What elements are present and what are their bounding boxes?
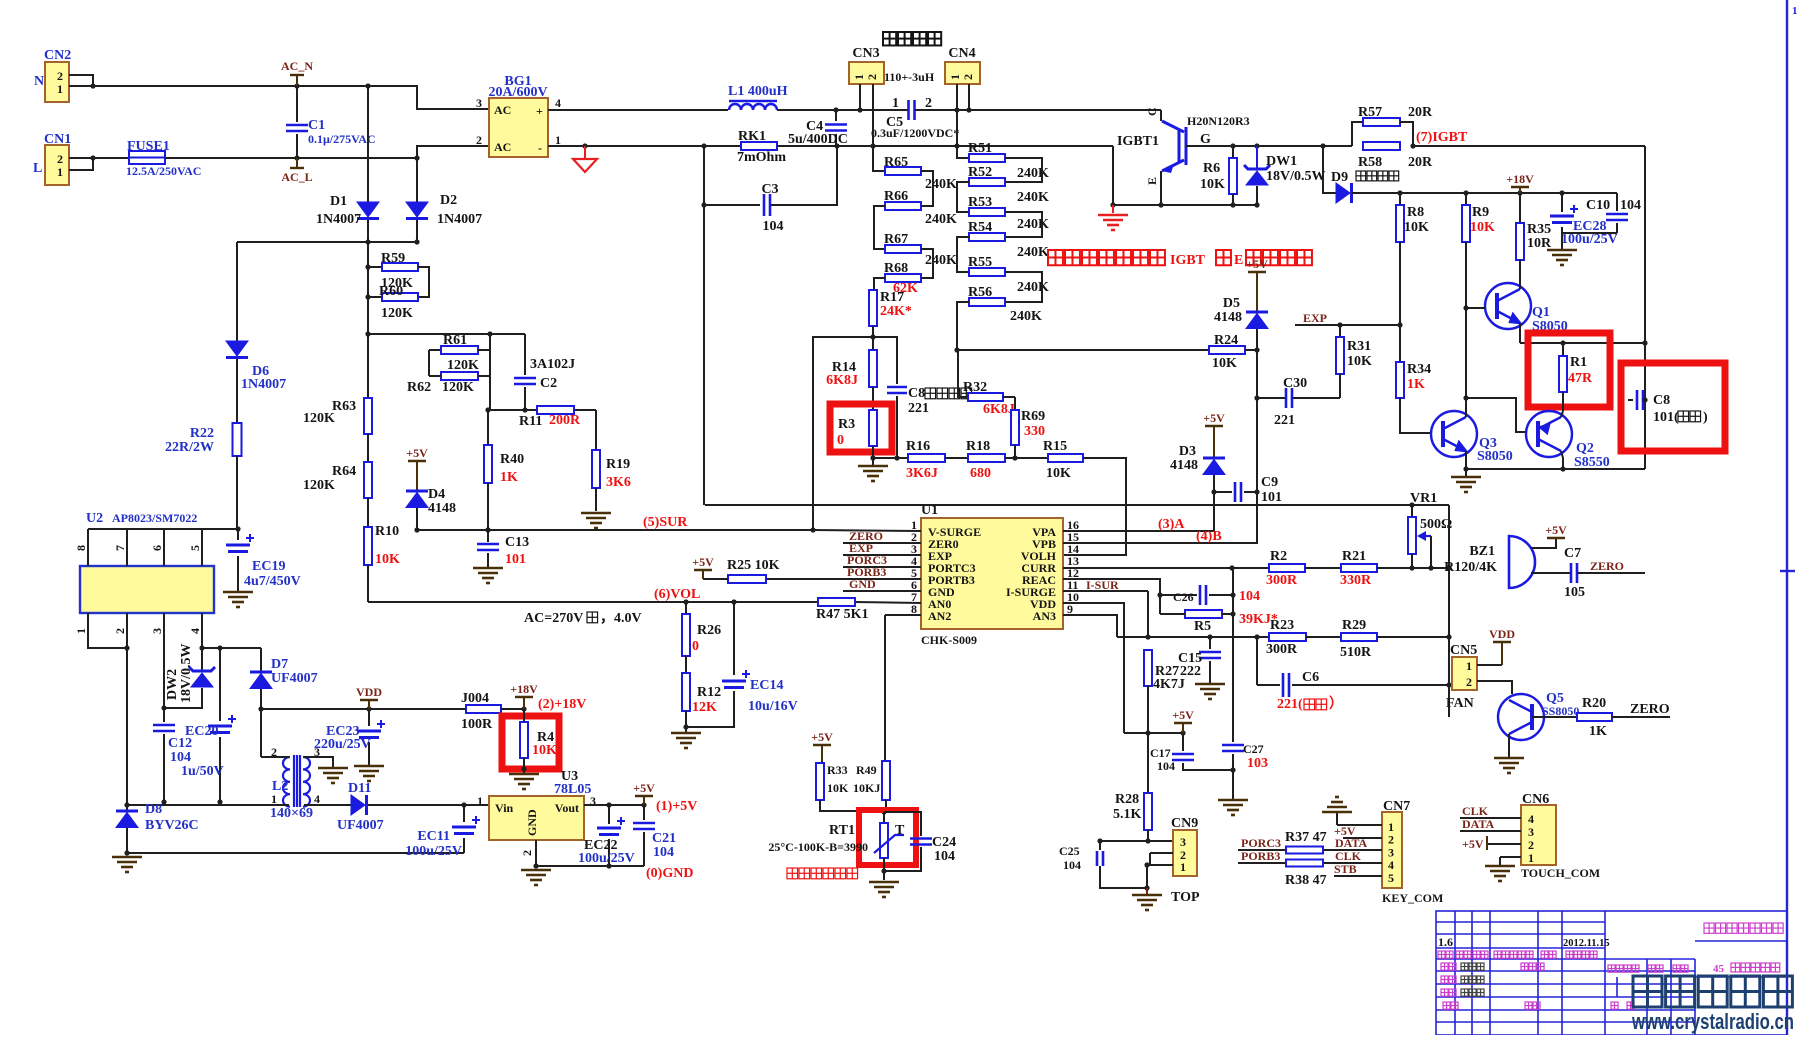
svg-text:62K: 62K (893, 281, 918, 296)
svg-text:1: 1 (1180, 860, 1186, 874)
net flag VDD CN5 (1477, 664, 1502, 666)
ground below Q3 (1465, 469, 1467, 477)
svg-text:D8: D8 (145, 802, 162, 817)
capacitor C5 (907, 100, 910, 120)
svg-text:R68: R68 (884, 261, 908, 276)
svg-text:+5V: +5V (1172, 708, 1194, 722)
svg-text:10K: 10K (532, 743, 557, 758)
wire gate (1186, 145, 1323, 147)
svg-text:2: 2 (1528, 838, 1534, 852)
wire Q1 emitter row (1520, 342, 1645, 344)
svg-text:C8: C8 (1653, 393, 1670, 408)
IC U3 78L05 (489, 796, 584, 840)
ground below EC23 (354, 766, 384, 781)
resistor R17 (874, 278, 885, 290)
svg-text:I-SUR: I-SUR (1086, 578, 1119, 592)
net PORC3 pin4 (843, 566, 921, 568)
pin 8 U2 (87, 529, 89, 566)
svg-text:104: 104 (1063, 858, 1081, 872)
svg-text:4: 4 (314, 792, 320, 806)
resistor R18 (968, 454, 1005, 462)
ground below EC19 (223, 592, 253, 607)
resistor R64 (367, 434, 369, 462)
svg-text:10u/16V: 10u/16V (748, 699, 798, 714)
wire main bus (548, 109, 728, 111)
svg-text:1: 1 (555, 133, 561, 147)
wire L2 pin1 rail (283, 804, 289, 806)
resistor R2 (1269, 564, 1305, 572)
svg-text:120K: 120K (303, 411, 335, 426)
connector CN7 (1382, 812, 1402, 888)
svg-text:R34: R34 (1407, 362, 1431, 377)
svg-text:VDD: VDD (356, 685, 382, 699)
ground below EC28 (1561, 233, 1563, 250)
wire left chain (367, 267, 369, 334)
red box R1 (1528, 333, 1610, 407)
svg-text:240K: 240K (1010, 309, 1042, 324)
wire pin12 REAC (1063, 579, 1160, 614)
svg-text:+5V: +5V (1246, 257, 1268, 271)
svg-text:R35: R35 (1527, 222, 1551, 237)
svg-text:C: C (1145, 107, 1159, 116)
diode D5 (1248, 271, 1266, 273)
resistor R14 (869, 350, 877, 387)
resistor R15 (1048, 454, 1083, 462)
svg-text:C26: C26 (1173, 590, 1194, 604)
svg-text:D7: D7 (271, 657, 288, 672)
svg-text:240K: 240K (1017, 245, 1049, 260)
svg-text:CN4: CN4 (948, 46, 975, 61)
wire EC28-C10 bottom (1562, 232, 1617, 234)
svg-text:240K: 240K (1017, 190, 1049, 205)
net +5V CN7 (1343, 837, 1382, 839)
svg-text:1: 1 (852, 74, 866, 80)
svg-text:220u/25V: 220u/25V (314, 737, 371, 752)
capacitor C4 (835, 110, 837, 121)
bridge BG1 (489, 98, 548, 157)
wire 18V rail (1400, 192, 1617, 194)
svg-text:R9: R9 (1472, 205, 1489, 220)
svg-text:10KJ: 10KJ (853, 781, 880, 795)
svg-text:221: 221 (1274, 413, 1295, 428)
svg-text:3: 3 (150, 628, 164, 634)
svg-text:2: 2 (476, 133, 482, 147)
ground below C27 (1218, 800, 1248, 815)
svg-text:3K6J: 3K6J (906, 466, 938, 481)
svg-text:12.5A/250VAC: 12.5A/250VAC (126, 164, 201, 178)
svg-text:R53: R53 (968, 195, 992, 210)
svg-text:C6: C6 (1302, 670, 1319, 685)
resistor R49 (882, 761, 890, 800)
svg-text:CN6: CN6 (1522, 792, 1549, 807)
svg-text:D1: D1 (330, 194, 347, 209)
svg-text:78L05: 78L05 (554, 782, 591, 797)
resistor R58 (1363, 142, 1400, 150)
resistor R26 (685, 602, 687, 614)
svg-text:105: 105 (1564, 585, 1585, 600)
resistor R29 (1341, 633, 1377, 641)
svg-text:CHK-S009: CHK-S009 (921, 633, 977, 647)
capacitor C30 (1257, 397, 1285, 399)
red box RT1 (859, 810, 916, 865)
pin 1 U2 (87, 613, 89, 628)
svg-text:6: 6 (150, 545, 164, 551)
svg-text:D11: D11 (348, 781, 371, 796)
ground U3 (521, 870, 551, 885)
svg-text:GND: GND (849, 577, 876, 591)
wire sense down (703, 205, 705, 505)
svg-text:GND: GND (525, 809, 539, 836)
svg-text:TOP: TOP (1171, 890, 1200, 905)
svg-text:E: E (1234, 253, 1243, 268)
svg-text:R54: R54 (968, 220, 992, 235)
svg-text:3: 3 (1528, 825, 1534, 839)
svg-text:R12: R12 (697, 685, 721, 700)
svg-text:C13: C13 (505, 535, 529, 550)
svg-text:18V/0.5W: 18V/0.5W (1266, 169, 1326, 184)
resistor R28 (1147, 733, 1149, 793)
svg-text:C25: C25 (1059, 844, 1080, 858)
svg-text:+18V: +18V (1506, 172, 1534, 186)
wire gnd rail (127, 852, 464, 854)
resistor R52 (1005, 158, 1042, 182)
wire pin10 VDD (1063, 603, 1124, 733)
capacitor C25 (1099, 841, 1101, 850)
wire CN9 pin3 (1100, 840, 1173, 842)
capacitor EC14 (733, 602, 735, 675)
svg-text:R69: R69 (1021, 409, 1045, 424)
transistor Q3 S8050 (1431, 411, 1477, 457)
svg-text:AN2: AN2 (928, 609, 951, 623)
wire EXP row (1295, 324, 1400, 326)
svg-text:R3: R3 (838, 417, 855, 432)
net GND pin6 (843, 590, 921, 592)
svg-text:VDD: VDD (1489, 627, 1515, 641)
svg-text:R1: R1 (1570, 355, 1587, 370)
svg-text:UF4007: UF4007 (337, 818, 384, 833)
wire +5V node (1124, 732, 1183, 734)
svg-text:EC20: EC20 (185, 724, 218, 739)
svg-text:1: 1 (271, 792, 277, 806)
svg-text:S8550: S8550 (1574, 455, 1610, 470)
svg-text:C3: C3 (761, 182, 778, 197)
svg-text:2: 2 (925, 96, 932, 111)
resistor R9 (1465, 193, 1467, 205)
svg-text:10K: 10K (375, 552, 400, 567)
resistor R5 (1185, 610, 1222, 618)
svg-text:4: 4 (555, 96, 561, 110)
svg-text:+5V: +5V (1462, 837, 1484, 851)
resistor RK1 (741, 142, 777, 150)
svg-text:R10: R10 (375, 524, 399, 539)
resistor R19 (595, 410, 597, 450)
buzzer BZ1 (1509, 536, 1535, 588)
svg-text:R40: R40 (500, 452, 524, 467)
net flag +5V U3 (635, 795, 653, 797)
svg-text:): ) (1703, 410, 1708, 425)
svg-text:240K: 240K (925, 212, 957, 227)
wire VR bus (705, 504, 1449, 506)
net DATA CN6 (1460, 830, 1521, 832)
svg-text:103: 103 (1247, 756, 1268, 771)
svg-text:104: 104 (1239, 589, 1260, 604)
svg-text:0.3uF/1200VDC*: 0.3uF/1200VDC* (871, 126, 959, 140)
net CLK CN7 (1323, 862, 1382, 864)
svg-text:EC19: EC19 (252, 559, 285, 574)
capacitor C24 (884, 812, 921, 836)
transistor Q5 SS8050 (1498, 694, 1544, 740)
svg-text:10K: 10K (1200, 177, 1225, 192)
wire right drop (1448, 505, 1450, 717)
capacitor C13 (485, 527, 490, 532)
wire rectified bus (237, 241, 417, 243)
svg-text:120K: 120K (447, 358, 479, 373)
diode D8 (124, 802, 129, 807)
svg-text:IGBT: IGBT (1170, 253, 1206, 268)
net ZERO pin2 (843, 542, 921, 544)
resistor R24 (1209, 346, 1245, 354)
capacitor C8 nostuff (1628, 399, 1633, 401)
svg-text:VR1: VR1 (1410, 491, 1437, 506)
svg-text:R21: R21 (1342, 549, 1366, 564)
svg-text:7: 7 (113, 545, 127, 551)
capacitor C12 (163, 613, 165, 722)
svg-text:510R: 510R (1340, 645, 1372, 660)
wire R24 row (957, 349, 1209, 351)
svg-text:R59: R59 (381, 251, 405, 266)
resistor R22 (233, 423, 242, 456)
net +5V CN6 (1487, 843, 1521, 845)
wire surge tap (813, 337, 873, 530)
wire CN4 pins (957, 84, 969, 158)
svg-text:PORC3: PORC3 (1241, 836, 1281, 850)
svg-text:FAN: FAN (1446, 696, 1474, 711)
svg-text:D2: D2 (440, 193, 457, 208)
svg-text:www.crystalradio.cn: www.crystalradio.cn (1631, 1009, 1794, 1034)
svg-text:10K: 10K (1404, 220, 1429, 235)
resistor R10 (367, 498, 369, 527)
connector CN2 (45, 62, 69, 102)
svg-text:221(: 221( (1277, 697, 1303, 712)
wire N bus (69, 86, 489, 109)
svg-text:104: 104 (934, 849, 955, 864)
wire CN5 pin2 fan (1477, 681, 1512, 694)
capacitor C10 (1616, 193, 1618, 211)
capacitor C9 (1214, 491, 1232, 493)
wire x1233 vertical (1232, 568, 1234, 742)
svg-text:CN2: CN2 (44, 48, 71, 63)
svg-text:+5V: +5V (692, 555, 714, 569)
net CLK CN6 (1460, 817, 1521, 819)
resistor R31 (1339, 325, 1341, 337)
svg-text:CN7: CN7 (1383, 799, 1410, 814)
diode D7 (260, 648, 262, 672)
wire R11 node (488, 409, 596, 411)
svg-text:110+-3uH: 110+-3uH (884, 70, 935, 84)
capacitor C6 (1256, 637, 1258, 685)
svg-text:104: 104 (170, 750, 191, 765)
resistor R23 (1269, 633, 1306, 641)
diode D6 (236, 242, 238, 341)
svg-text:2: 2 (961, 74, 975, 80)
svg-text:R24: R24 (1214, 333, 1238, 348)
label tips red (787, 868, 858, 879)
svg-text:300R: 300R (1266, 642, 1298, 657)
svg-text:101: 101 (1261, 490, 1282, 505)
svg-text:1N4007: 1N4007 (437, 212, 482, 227)
svg-text:(6)VOL: (6)VOL (654, 587, 700, 602)
svg-text:KEY_COM: KEY_COM (1382, 891, 1443, 905)
capacitor C2 (524, 334, 526, 375)
svg-text:U2: U2 (86, 511, 103, 526)
net flag VDD (360, 699, 378, 701)
wire pin16 A (1063, 474, 1214, 531)
svg-text:(1)+5V: (1)+5V (656, 799, 697, 814)
svg-text:R29: R29 (1342, 618, 1366, 633)
svg-text:C24: C24 (932, 835, 956, 850)
resistor R66 (921, 171, 933, 206)
svg-text:UF4007: UF4007 (271, 671, 318, 686)
svg-text:8: 8 (74, 545, 88, 551)
svg-text:R31: R31 (1347, 339, 1371, 354)
svg-text:R18: R18 (966, 439, 990, 454)
resistor R47 (818, 598, 855, 606)
note red text (1048, 250, 1165, 265)
wire L jog (69, 158, 93, 170)
capacitor C17 (1182, 733, 1184, 751)
svg-text:300R: 300R (1266, 573, 1298, 588)
svg-text:1u/50V: 1u/50V (181, 764, 224, 779)
net flag +5V R25 (694, 569, 712, 571)
svg-text:2: 2 (1466, 675, 1472, 689)
svg-text:G: G (1200, 132, 1211, 147)
resistor R62 (441, 372, 478, 380)
svg-text:STB: STB (1334, 862, 1357, 876)
wire right vertical (1644, 146, 1646, 469)
svg-text:+5V: +5V (1545, 523, 1567, 537)
svg-text:L: L (33, 161, 42, 176)
ground below R3 (858, 466, 888, 481)
svg-text:4: 4 (188, 628, 202, 634)
svg-text:101: 101 (505, 552, 526, 567)
company name magenta (1704, 923, 1783, 933)
net PORB3 pin5 (766, 578, 921, 580)
wire shunt bus (704, 145, 741, 147)
svg-text:ZERO: ZERO (1630, 702, 1670, 717)
svg-text:5: 5 (188, 545, 202, 551)
svg-text:H20N120R3: H20N120R3 (1187, 114, 1250, 128)
svg-text:DW1: DW1 (1266, 154, 1297, 169)
svg-text:J004: J004 (461, 691, 489, 706)
svg-text:20R: 20R (1408, 155, 1433, 170)
resistor R61 (429, 349, 441, 351)
svg-text:104: 104 (653, 845, 674, 860)
svg-text:4148: 4148 (1170, 458, 1198, 473)
svg-text:SS8050: SS8050 (1542, 704, 1579, 718)
svg-text:BZ1: BZ1 (1469, 544, 1495, 559)
svg-text:R15: R15 (1043, 439, 1067, 454)
svg-text:C8: C8 (908, 386, 925, 401)
svg-text:10K: 10K (1212, 356, 1237, 371)
wire gate line right (1413, 145, 1645, 147)
wire VDD rail (261, 708, 466, 710)
svg-text:3: 3 (1180, 835, 1186, 849)
capacitor C21 (643, 805, 645, 820)
svg-text:T: T (895, 823, 905, 838)
svg-text:CLK: CLK (1335, 849, 1362, 863)
wire CN7 pin1 gnd (1337, 824, 1382, 826)
resistor J004 (466, 705, 501, 713)
svg-text:RT1: RT1 (829, 823, 855, 838)
svg-text:1: 1 (477, 794, 483, 808)
ground L2 pin3 (318, 768, 348, 783)
svg-text:R28: R28 (1115, 792, 1139, 807)
svg-text:ZERO: ZERO (1590, 559, 1624, 573)
svg-text:AC_N: AC_N (281, 59, 313, 73)
wire U2 pin1-2 join (88, 628, 128, 648)
svg-text:R26: R26 (697, 623, 721, 638)
svg-text:N: N (34, 74, 44, 89)
svg-text:8: 8 (911, 602, 917, 616)
svg-text:100u/25V: 100u/25V (405, 844, 462, 859)
svg-text:DATA: DATA (1335, 836, 1368, 850)
svg-text:R47 5K1: R47 5K1 (816, 607, 869, 622)
diode D4 +5V (408, 460, 426, 462)
svg-text:4u7/450V: 4u7/450V (244, 574, 301, 589)
svg-text:1: 1 (1792, 5, 1798, 17)
resistor R6 (1232, 146, 1234, 158)
connector CN1 (45, 145, 69, 185)
svg-text:7mOhm: 7mOhm (737, 150, 786, 165)
wire BG1 out- (548, 145, 704, 147)
svg-text:330: 330 (1024, 424, 1045, 439)
svg-text:(0)GND: (0)GND (646, 866, 693, 881)
svg-text:24K*: 24K* (880, 304, 912, 319)
svg-text:R8: R8 (1407, 205, 1424, 220)
resistor R53 (957, 182, 969, 212)
svg-text:(4)B: (4)B (1196, 529, 1222, 544)
ground red IGBT (1112, 205, 1114, 213)
wire BZ1 bottom + C7 (1531, 572, 1570, 574)
capacitor C15 (1209, 637, 1211, 649)
svg-text:AC: AC (494, 140, 511, 154)
svg-text:240K: 240K (1017, 166, 1049, 181)
wire Q5 emitter gnd (1508, 734, 1510, 758)
svg-text:100R: 100R (461, 717, 493, 732)
svg-text:L1 400uH: L1 400uH (728, 84, 788, 99)
zener DW1 (1256, 146, 1258, 169)
pin 2 U2 (126, 613, 128, 648)
svg-text:47R: 47R (1568, 371, 1593, 386)
net DATA CN7 (1323, 849, 1382, 851)
resistor R65 (873, 146, 885, 171)
svg-text:R37 47: R37 47 (1285, 830, 1327, 845)
svg-text:+5V: +5V (406, 446, 428, 460)
resistor R21 (1341, 564, 1377, 572)
svg-text:R62: R62 (407, 380, 431, 395)
svg-text:R38 47: R38 47 (1285, 873, 1327, 888)
svg-text:1: 1 (892, 96, 899, 111)
resistor R33 (813, 744, 831, 746)
svg-text:3: 3 (314, 745, 320, 759)
svg-text:3K6: 3K6 (606, 475, 631, 490)
svg-text:(3)A: (3)A (1158, 517, 1185, 532)
frame right edge (1786, 0, 1788, 1035)
svg-text:104: 104 (763, 219, 784, 234)
net EXP pin3 (843, 554, 921, 556)
svg-text:10K: 10K (827, 781, 849, 795)
red box R4 (502, 716, 559, 769)
